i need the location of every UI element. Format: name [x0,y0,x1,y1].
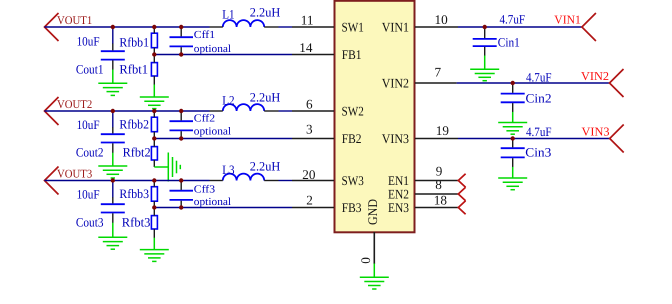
svg-text:VIN3: VIN3 [582,124,610,138]
svg-text:Rfbt2: Rfbt2 [123,146,151,160]
svg-text:4.7uF: 4.7uF [526,70,552,84]
inductor L3 [223,174,264,181]
svg-text:SW3: SW3 [342,173,365,188]
resistor Rfbb3 [151,187,157,202]
svg-text:6: 6 [306,97,313,112]
svg-text:optional: optional [194,43,231,55]
capacitor Cout1 [101,51,125,59]
pin stub FB1 [292,54,334,56]
capacitor Cff2 stubs [180,111,182,139]
svg-text:4.7uF: 4.7uF [500,12,526,26]
junction dot Cin1 [483,25,487,29]
port EN1 arrow [458,174,465,188]
capacitor Cin1 [473,39,497,46]
wire L1 to SW1 [279,26,293,28]
pin stub EN3 [415,207,458,209]
svg-text:Rfbb1: Rfbb1 [119,35,149,49]
svg-text:FB2: FB2 [342,131,362,146]
port VIN2 arrow [610,69,624,97]
ground for Cout3 [98,223,127,250]
pin stub SW1 [292,26,334,28]
pin stub FB2 [292,138,334,140]
svg-text:optional: optional [194,196,231,208]
port VIN3 arrow [610,125,624,153]
svg-text:10uF: 10uF [77,118,100,132]
svg-text:GND: GND [365,199,380,225]
svg-text:10uF: 10uF [77,187,100,201]
svg-text:L2: L2 [222,93,234,107]
resistor Rfbt2 stubs [153,139,155,168]
port EN2 arrow [458,187,465,201]
svg-text:VIN2: VIN2 [382,75,409,90]
svg-text:Cout2: Cout2 [76,146,104,160]
inductor L3 stubs [210,180,279,182]
svg-text:VOUT2: VOUT2 [57,97,92,111]
capacitor Cin1 stubs [484,27,486,56]
svg-text:Rfbt3: Rfbt3 [122,216,151,230]
resistor Rfbb2 [151,117,157,132]
pin stub EN2 [415,193,458,195]
svg-text:2.2uH: 2.2uH [250,160,280,174]
svg-text:11: 11 [301,12,314,27]
svg-text:Cin1: Cin1 [498,35,520,49]
svg-text:EN3: EN3 [388,200,409,215]
wire Cout1 drop [112,27,114,44]
capacitor Cin3 [501,148,525,157]
svg-text:10uF: 10uF [77,34,100,48]
svg-text:19: 19 [436,123,450,138]
svg-text:VIN1: VIN1 [554,13,581,27]
inductor L1 [223,20,264,27]
port VOUT3 arrow [45,167,59,195]
svg-text:L3: L3 [222,163,234,177]
svg-text:Cff3: Cff3 [194,184,215,196]
svg-text:Cff2: Cff2 [194,113,215,125]
port VOUT1 arrow [45,13,59,41]
capacitor Cff1 [170,37,194,46]
wire L2 to SW2 [279,110,293,112]
capacitor Cin3 stubs [512,139,514,168]
pin stub GND pin 0 [373,232,375,264]
wire VIN2 [457,82,610,84]
ground for Cin3 [498,167,527,190]
resistor Rfbb3 stubs [153,181,155,208]
capacitor Cout3 [101,204,125,212]
svg-text:4.7uF: 4.7uF [526,125,552,139]
wire VOUT3 rail [45,180,210,182]
capacitor Cout2 stubs [112,127,114,153]
ground for Cout2 [98,153,127,178]
wire FB3 [154,207,292,209]
resistor Rfbb1 [151,33,157,48]
capacitor Cin2 stubs [512,83,514,112]
junction dots row 3 [111,178,184,209]
svg-text:FB1: FB1 [342,47,362,62]
svg-text:SW2: SW2 [342,103,364,118]
svg-text:Cff1: Cff1 [194,29,215,41]
resistor Rfbb1 stubs [153,27,155,55]
ground for Cout1 [98,70,127,96]
port EN3 arrow [458,201,465,215]
svg-text:Rfbb2: Rfbb2 [119,118,149,132]
wire Cout3 drop [112,181,114,198]
ground for Rfbt3 [140,238,169,262]
resistor Rfbb2 stubs [153,111,155,139]
svg-text:Cout1: Cout1 [76,63,104,77]
pin stub VIN2 [415,82,457,84]
junction dots row 1 [111,25,184,57]
capacitor Cin2 [501,94,525,103]
port VOUT2 arrow [45,97,59,125]
svg-text:7: 7 [435,65,442,80]
svg-text:SW1: SW1 [342,19,364,34]
svg-text:18: 18 [434,193,448,208]
svg-text:14: 14 [299,40,313,55]
svg-text:8: 8 [435,177,442,192]
wire VIN3 [458,138,610,140]
svg-text:Rfbb3: Rfbb3 [119,187,149,201]
svg-text:VIN3: VIN3 [382,131,410,146]
svg-text:3: 3 [306,122,313,137]
capacitor Cout1 stubs [112,44,114,70]
capacitor Cff3 stubs [180,181,182,208]
ground for Rfbt1 [140,85,169,109]
resistor Rfbt3 stubs [153,208,155,239]
resistor Rfbt2 [151,147,157,160]
capacitor Cff3 [170,191,194,200]
svg-text:FB3: FB3 [342,200,362,215]
pin stub FB3 [292,207,334,209]
svg-text:VOUT3: VOUT3 [57,166,92,180]
resistor Rfbt1 [151,63,157,76]
svg-text:Rfbt1: Rfbt1 [119,63,148,77]
svg-text:Cin3: Cin3 [525,146,551,160]
resistor Rfbt1 stubs [153,55,155,85]
wire VIN1 [458,26,582,28]
capacitor Cout3 stubs [112,197,114,223]
inductor L2 stubs [210,110,279,112]
wire FB2 [154,138,292,140]
wire VOUT1 rail [45,26,210,28]
resistor Rfbt3 [151,216,157,229]
junction dot Cin2 [511,81,515,85]
wire VOUT2 rail [45,110,210,112]
wire Cout2 drop [112,111,114,128]
wire FB1 [154,54,292,56]
ground for Cin1 [470,56,499,81]
svg-text:L1: L1 [222,7,234,21]
pin stub EN1 [415,180,458,182]
ground for Rfbt2 (rotated) [154,153,180,182]
svg-text:10: 10 [435,12,449,27]
capacitor Cff2 [170,121,194,130]
junction dot Cin3 [511,136,515,140]
op-amp U1 IC body [335,1,415,233]
capacitor Cff1 stubs [180,27,182,55]
wire L3 to SW3 [279,180,293,182]
svg-text:VIN2: VIN2 [581,69,609,83]
inductor L1 stubs [210,26,279,28]
port VIN1 arrow [582,13,596,41]
junction dots row 2 [111,109,184,141]
svg-text:optional: optional [194,126,231,138]
svg-text:2.2uH: 2.2uH [250,91,280,105]
svg-text:Cin2: Cin2 [526,91,552,105]
svg-text:20: 20 [302,167,316,182]
pin stub SW2 [292,110,334,112]
svg-text:VOUT1: VOUT1 [57,13,92,27]
pin stub VIN3 [415,138,458,140]
svg-text:VIN1: VIN1 [382,19,409,34]
svg-text:0: 0 [358,257,373,264]
svg-text:Cout3: Cout3 [76,215,104,229]
svg-text:2.2uH: 2.2uH [250,6,280,20]
inductor L2 [223,104,264,111]
svg-text:2: 2 [306,192,313,207]
pin stub SW3 [292,180,334,182]
pin stub VIN1 [415,26,458,28]
ground for Cin2 [498,112,527,134]
ground for IC GND pin [360,264,389,290]
capacitor Cout2 [101,134,125,142]
